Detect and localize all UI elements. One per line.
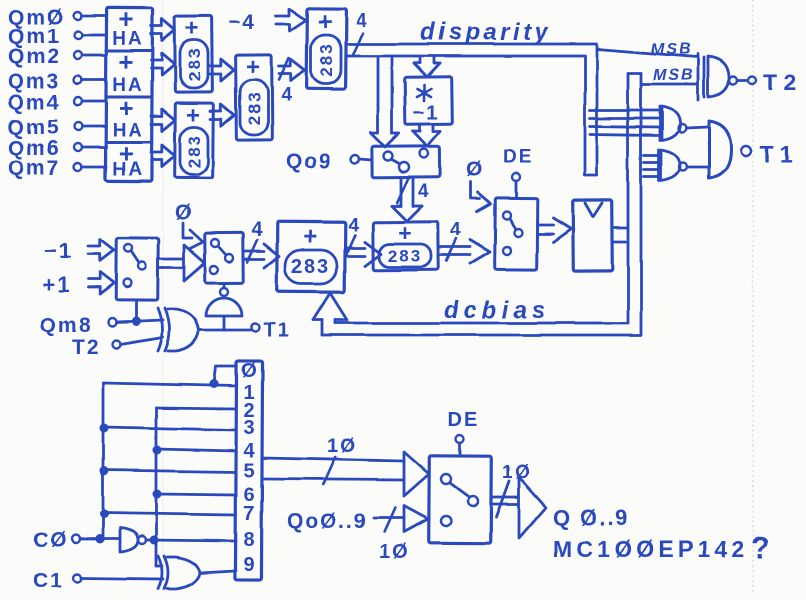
half-adder HA1-HA4 column (105, 8, 152, 181)
input T2 (72, 336, 163, 359)
svg-text:+1: +1 (42, 272, 71, 297)
wire mux M1 output bus 4 (392, 177, 431, 221)
wire net row3 (103, 427, 236, 430)
svg-text:1Ø: 1Ø (502, 462, 531, 483)
svg-text:+: + (186, 102, 202, 129)
junction row8 bus B2 (150, 536, 159, 545)
half-adder HA3 labels (112, 93, 143, 141)
mux M1 sign select (372, 146, 440, 178)
svg-text:283: 283 (185, 134, 204, 168)
svg-text:−1: −1 (44, 238, 73, 263)
wire mux M2 to mux M3 arrow (158, 245, 205, 281)
input C1 (33, 569, 163, 592)
svg-text:283: 283 (388, 247, 422, 266)
label dcbias (444, 297, 550, 324)
wire register output vertical bus (628, 73, 641, 335)
wire +1 input arrow (88, 272, 114, 294)
wire mux M4 to register arrow (537, 218, 571, 242)
label T2 output (763, 69, 802, 95)
wire net row5 (103, 470, 236, 472)
wire G3 to G4 (687, 166, 708, 169)
svg-text:?: ? (751, 530, 772, 565)
input Qm7 (8, 157, 106, 180)
input C0 (33, 529, 120, 552)
svg-text:Ø: Ø (175, 201, 193, 224)
adder 283 U2 (175, 102, 214, 178)
xor gate X1 (158, 308, 199, 351)
adder 283 U1 (175, 15, 213, 92)
input Qm8 (40, 314, 163, 337)
svg-text:1Ø: 1Ø (379, 541, 410, 563)
wire G6 output to row9 (200, 571, 236, 573)
svg-text:Ø: Ø (466, 158, 484, 181)
wire U2 output arrow (210, 104, 234, 126)
wire net row2 (156, 408, 236, 409)
mux M3 zero select (205, 233, 244, 283)
svg-text:4: 4 (348, 215, 361, 236)
svg-text:QoØ..9: QoØ..9 (287, 510, 368, 533)
junction row5 (100, 467, 109, 476)
half-adder HA1 labels (112, 4, 143, 50)
and gate G4 output T1 (709, 121, 751, 178)
label 0 at mux M4 (466, 158, 484, 181)
junction C0 bus B1 (96, 535, 105, 544)
wire net row4 (156, 449, 236, 451)
svg-text:−4: −4 (228, 11, 256, 34)
wire mux M2 select from Qm8 (135, 300, 138, 318)
svg-text:4: 4 (243, 440, 255, 462)
svg-text:MSB: MSB (653, 67, 695, 84)
wire mux M3 output bus 4 (243, 219, 279, 268)
svg-text:T1: T1 (263, 320, 290, 342)
svg-text:Qo9: Qo9 (286, 150, 333, 173)
svg-text:+: + (318, 8, 335, 36)
junction row0 branch (210, 380, 219, 389)
and gate G3 dcbias detect (659, 150, 687, 181)
svg-text:+: + (303, 223, 320, 251)
wire dcbias 4-bit stubs (644, 156, 659, 177)
svg-text:dcbias: dcbias (444, 297, 550, 324)
svg-text:9: 9 (243, 554, 254, 576)
wire register output (612, 228, 628, 242)
adder 283 U4 (307, 8, 347, 89)
svg-text:Qm3: Qm3 (8, 70, 61, 93)
wire U1 output arrow (210, 59, 234, 81)
xor gate G6 (158, 556, 200, 589)
multiplier *-1 U5 (405, 77, 453, 125)
svg-text:7: 7 (243, 503, 254, 525)
and gate G2 disparity detect (660, 106, 686, 140)
wire HA1 output arrow (151, 19, 175, 41)
register R1 with clock notch (573, 200, 613, 271)
label 0 constant at mux M3 (175, 201, 193, 224)
label MSB dcbias (653, 67, 695, 84)
mux M4 output enable (495, 198, 538, 270)
label Qo0..9 bus (287, 510, 368, 533)
junction row3 (100, 424, 109, 433)
wire disparity 4-bit bundle (590, 110, 659, 135)
label DE at mux M4 (503, 147, 533, 168)
half-adder HA2 labels (112, 47, 143, 97)
decoder D1 outputs 0-9 (235, 360, 262, 580)
inverter G5 (120, 528, 146, 552)
svg-text:T1: T1 (760, 141, 799, 167)
wire -4 input arrow (276, 9, 306, 31)
junction row6 (153, 490, 162, 499)
svg-text:T2: T2 (763, 69, 802, 95)
wire DE select into mux M4 (512, 173, 520, 198)
adder 283 U6 (277, 222, 346, 293)
nand gate G1 output T2 (698, 54, 756, 100)
wire U3 output arrow bus 4 (279, 58, 305, 106)
svg-text:Qm5: Qm5 (8, 116, 61, 139)
wire G2 to G4 (686, 127, 708, 128)
wire -1 input arrow (88, 239, 114, 261)
svg-text:1Ø: 1Ø (327, 435, 358, 457)
svg-text:CØ: CØ (33, 529, 69, 552)
svg-text:283: 283 (245, 90, 264, 124)
label bus width 4 on U4 output (353, 11, 369, 55)
junction Qm8 select (132, 317, 141, 326)
label -1 constant (44, 238, 73, 263)
junction row4 (153, 446, 162, 455)
svg-text:Qm7: Qm7 (8, 157, 61, 180)
wire HA3 output arrow (151, 109, 175, 131)
wire MSB dcbias to nand T2 (641, 83, 697, 86)
wire into multiplier (414, 57, 440, 77)
label Q0..9 output (553, 505, 630, 530)
input Qm2 (8, 45, 106, 68)
svg-text:T2: T2 (72, 336, 101, 359)
wire disparity to mux M1 direct branch (371, 57, 399, 147)
svg-text:−1: −1 (413, 102, 440, 124)
svg-text:Qm4: Qm4 (8, 91, 61, 114)
wire net row6 (156, 494, 236, 495)
input Qm0 (8, 6, 106, 29)
wire Qo0..9 arrow bus 10 (374, 506, 428, 563)
wire bus B2 vertical (155, 408, 158, 566)
label T1 output (760, 141, 799, 167)
wire multiplier output arrow (413, 124, 440, 146)
svg-text:Q Ø..9: Q Ø..9 (553, 505, 630, 530)
label Qo9 (286, 150, 333, 173)
wire HA4 output arrow (151, 145, 175, 167)
svg-text:+: + (246, 54, 262, 81)
svg-text:HA: HA (112, 159, 143, 180)
wire net row0 row1 (103, 366, 236, 386)
wire U7 output bus 4 (438, 220, 490, 264)
svg-text:Qm8: Qm8 (40, 314, 93, 337)
input Qm1 (8, 25, 106, 48)
svg-text:283: 283 (291, 256, 330, 278)
svg-text:5: 5 (243, 460, 254, 482)
svg-text:disparity: disparity (420, 19, 552, 46)
wire 0 bent arrow into mux M3 (183, 223, 203, 249)
half-adder HA4 labels (112, 138, 143, 180)
wire disparity bus (347, 44, 597, 175)
svg-text:Ø: Ø (241, 360, 257, 382)
svg-text:+: + (398, 220, 413, 246)
label disparity (420, 19, 552, 46)
svg-text:+: + (185, 15, 201, 42)
label MSB disparity (651, 41, 693, 58)
svg-text:4: 4 (251, 219, 264, 241)
label MC100EP142 (553, 530, 772, 565)
wire MSB disparity to nand T2 (597, 49, 697, 57)
svg-text:4: 4 (281, 85, 294, 106)
svg-text:C1: C1 (33, 569, 64, 592)
wire dcbias feedback arrow into U6 (313, 293, 347, 320)
wire 0 bent arrow into mux M4 (471, 182, 491, 212)
svg-text:Qm2: Qm2 (8, 45, 61, 68)
wire U6 output bus 4 (345, 215, 381, 266)
svg-text:283: 283 (317, 42, 336, 76)
label -4 constant (228, 11, 256, 34)
input Qm6 (8, 137, 106, 160)
buffer B1 dome on mux M3 select (206, 283, 242, 330)
svg-text:+: + (118, 93, 135, 123)
wire Qo9 to mux M1 (351, 155, 372, 163)
input Qm5 (8, 116, 106, 139)
wire DE select into mux M5 (456, 435, 464, 456)
wire decoder output bus 10 (262, 435, 429, 496)
svg-text:8: 8 (243, 529, 254, 551)
wire HA2 output arrow (151, 53, 175, 75)
adder 283 U3 (236, 54, 273, 140)
input Qm4 (8, 91, 106, 114)
wire bus B1 vertical (102, 383, 105, 540)
wire X1 output to T1 terminal (199, 320, 290, 342)
mux M2 increment select (116, 238, 159, 300)
paper margin dotted line (752, 0, 754, 595)
svg-text:3: 3 (243, 417, 254, 439)
wire bus B2 into xor (156, 565, 162, 568)
input Qm3 (8, 70, 106, 93)
svg-text:+: + (118, 47, 135, 77)
adder 283 U7 (373, 220, 438, 270)
wire dcbias feedback loop (322, 320, 641, 335)
HA cell dividers (106, 51, 152, 143)
label +1 constant (42, 272, 71, 297)
svg-text:4: 4 (356, 11, 369, 32)
svg-text:MC1ØØEP142: MC1ØØEP142 (553, 536, 748, 562)
wire G5 output to row8 (146, 540, 236, 541)
svg-text:4: 4 (418, 181, 431, 202)
svg-text:DE: DE (503, 147, 533, 168)
junction row7 (100, 510, 109, 519)
svg-text:DE: DE (448, 409, 480, 431)
mux M5 output enable (429, 456, 492, 543)
wire net row7 (103, 513, 236, 515)
label DE at mux M5 (448, 409, 480, 431)
svg-text:283: 283 (185, 47, 204, 81)
wire mux M5 output bus 10 (491, 462, 546, 538)
